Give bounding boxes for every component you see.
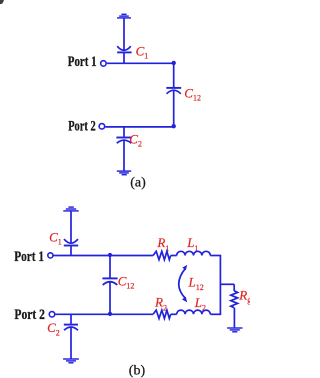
wire port2 row (a) <box>105 126 173 128</box>
svg-text:C1: C1 <box>49 229 62 246</box>
port 1 terminal (a) <box>101 61 107 67</box>
resistor Rg <box>231 291 238 308</box>
inductor L1 <box>177 251 211 255</box>
svg-text:L1: L1 <box>186 235 198 253</box>
svg-text:Rg: Rg <box>238 288 250 305</box>
wire port2 row (b) <box>55 313 153 315</box>
svg-text:Port 1: Port 1 <box>68 54 97 70</box>
wire stub down to Rg <box>233 284 235 291</box>
wire ground to C1 (a) <box>123 18 125 49</box>
wire C12 top leg (b) <box>109 256 111 278</box>
ground (bottom of C2, circuit b) <box>63 359 79 363</box>
port 1 terminal (b) <box>48 253 53 258</box>
ground (below Rg) <box>227 328 242 332</box>
wire right rail upper (a) <box>173 63 175 87</box>
wire L2 to corner <box>210 313 221 315</box>
junction dot (b, top) <box>108 253 112 257</box>
capacitor C12 (a) <box>166 88 181 94</box>
wire C2 to ground (b) <box>70 328 72 359</box>
svg-text:(b): (b) <box>129 364 146 378</box>
wire C1 leg (a) <box>123 53 125 63</box>
wire C2 leg (b) <box>70 314 72 324</box>
capacitor C2 (b) <box>64 325 78 331</box>
corner artifact <box>0 0 4 4</box>
wire C12 bottom leg (b) <box>109 282 111 314</box>
wire C1 leg (b) <box>70 246 72 255</box>
inductor L2 <box>177 310 211 314</box>
ground (top of C1, circuit a) <box>117 14 131 18</box>
resistor R1 <box>153 251 171 259</box>
junction dot (b, bottom) <box>108 312 112 316</box>
capacitor C12 (b) <box>102 278 117 285</box>
svg-text:Port 2: Port 2 <box>68 119 96 135</box>
svg-text:Port 2: Port 2 <box>14 307 45 323</box>
svg-text:C1: C1 <box>136 43 149 60</box>
wire right rail lower (a) <box>173 91 175 127</box>
port 2 terminal (a) <box>99 124 105 130</box>
wire C2 leg (a) <box>123 127 125 137</box>
svg-text:C12: C12 <box>118 274 135 291</box>
port 2 terminal (b) <box>49 312 55 318</box>
svg-text:(a): (a) <box>130 175 146 190</box>
wire R1 to L1 <box>171 255 177 257</box>
svg-text:C2: C2 <box>47 320 60 338</box>
wire ground to C1 (b) <box>70 211 72 242</box>
wire L1 to corner <box>210 255 221 257</box>
ground (top of C1, circuit b) <box>63 207 78 211</box>
wire Rg to ground <box>233 308 235 328</box>
wire right rail (b) <box>219 256 221 315</box>
junction dot (a, top right) <box>172 61 176 65</box>
svg-text:L12: L12 <box>188 274 204 292</box>
svg-text:C12: C12 <box>184 86 201 103</box>
wire Rg stub <box>220 283 234 285</box>
junction dot (a, bottom right) <box>172 124 176 128</box>
wire C2 to ground (a) <box>123 141 125 171</box>
wire R2 to L2 <box>171 313 177 315</box>
svg-text:Port 1: Port 1 <box>14 249 44 265</box>
wire port1 row (b) <box>53 255 153 257</box>
ground (bottom of C2, circuit a) <box>117 171 131 175</box>
resistor R2 <box>153 310 171 318</box>
capacitor C1 (b) <box>64 239 78 245</box>
capacitor C1 (a) <box>117 46 131 52</box>
svg-text:C2: C2 <box>129 131 142 148</box>
mutual inductance arrow L12 <box>179 265 187 303</box>
capacitor C2 (a) <box>116 138 131 144</box>
wire port1 row (a) <box>107 62 174 64</box>
